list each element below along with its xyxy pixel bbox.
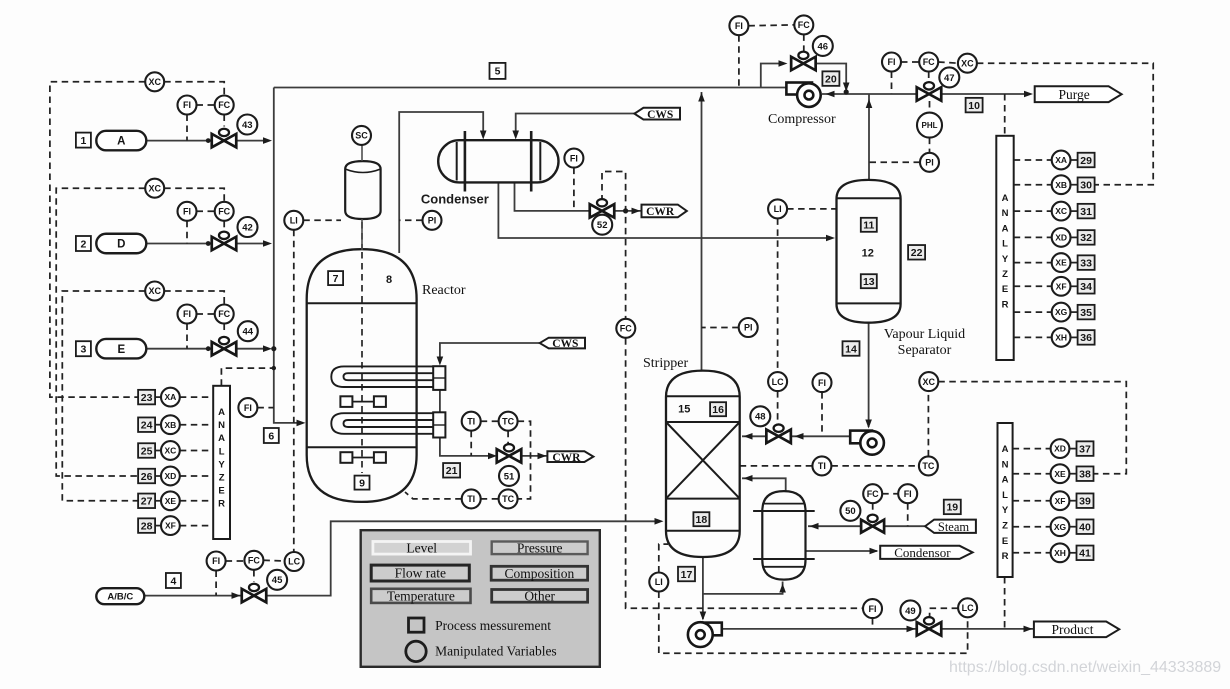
- svg-text:FC: FC: [248, 556, 260, 566]
- wire feed A/B/C line to stripper: [144, 521, 660, 595]
- instrument FC steam: [863, 484, 882, 503]
- node square 36: [1078, 330, 1095, 345]
- svg-text:FI: FI: [869, 604, 877, 614]
- node square 30: [1078, 177, 1095, 192]
- node legend box: [361, 530, 600, 667]
- svg-text:31: 31: [1080, 206, 1092, 218]
- svg-text:18: 18: [696, 514, 708, 526]
- svg-text:FI: FI: [183, 207, 191, 217]
- wire reactor CWR to valve 51: [440, 438, 492, 456]
- svg-text:FC: FC: [218, 207, 230, 217]
- instrument loop number 51: [499, 466, 519, 486]
- svg-text:24: 24: [141, 419, 153, 431]
- instrument PI separator overhead: [920, 153, 939, 172]
- node feed pill D: [96, 234, 146, 254]
- node square 40: [1077, 519, 1094, 534]
- wire dashed FI1 to feed A line: [186, 115, 188, 141]
- wire dashed FC to valve 47: [928, 72, 930, 81]
- node feed pill E: [96, 339, 146, 359]
- svg-text:XD: XD: [1055, 232, 1067, 242]
- node square 23: [138, 390, 155, 405]
- wire CWR line after valve 51: [521, 455, 547, 457]
- svg-text:PI: PI: [428, 216, 437, 226]
- instrument XE analyzer1: [1052, 253, 1071, 272]
- svg-text:LI: LI: [774, 204, 782, 214]
- svg-text:Flow rate: Flow rate: [395, 566, 446, 581]
- svg-text:49: 49: [905, 606, 916, 617]
- instrument XG analyzer2: [1051, 517, 1070, 536]
- wire separator pump discharge to valve 48: [791, 435, 851, 437]
- instrument XC analyzer1: [1052, 202, 1071, 221]
- arrow before CWR flag: [538, 453, 547, 460]
- svg-text:Pressure: Pressure: [517, 541, 563, 556]
- instrument PI reactor: [423, 211, 442, 230]
- wire dashed FI compressor to recycle line: [738, 35, 740, 87]
- arrow separator bottoms into pump: [865, 420, 872, 429]
- instrument TI reactor lower: [462, 489, 481, 508]
- wire dashed analyzer row 28: [155, 525, 161, 527]
- wire dashed FC1 to valve 43: [223, 115, 225, 127]
- svg-text:48: 48: [755, 412, 766, 423]
- instrument loop number 46: [813, 36, 833, 56]
- wire motor shaft to reactor: [361, 219, 363, 250]
- wire dashed analyzer1 row 29: [1014, 159, 1052, 161]
- node square 35: [1078, 305, 1095, 320]
- instrument TC reactor lower: [499, 489, 518, 508]
- node square 28: [138, 518, 155, 533]
- svg-text:N: N: [1002, 208, 1009, 219]
- condenser tube sheet lines: [457, 142, 541, 181]
- valve 49 product: [917, 617, 942, 636]
- wire condenser process outlet to separator: [498, 182, 831, 238]
- instrument FC purge: [919, 53, 938, 72]
- reactor agitator motor cylinder: [345, 161, 380, 219]
- svg-text:LC: LC: [962, 603, 974, 613]
- instrument FC feed 4: [244, 551, 263, 570]
- wire dashed analyzer2 row 38: [1013, 473, 1051, 475]
- analyzer left box: [213, 386, 230, 539]
- instrument loop number 49: [900, 600, 920, 620]
- instrument FI compressor: [729, 16, 748, 35]
- svg-text:R: R: [1002, 551, 1009, 562]
- node square 27: [138, 494, 155, 509]
- svg-text:LC: LC: [772, 377, 784, 387]
- node legend Level: [373, 542, 471, 555]
- wire compressor bypass loop: [761, 64, 783, 88]
- svg-text:A: A: [1002, 475, 1009, 486]
- svg-text:L: L: [219, 446, 225, 457]
- svg-text:A: A: [117, 136, 125, 148]
- instrument LC separator: [768, 372, 787, 391]
- svg-text:SC: SC: [355, 131, 368, 141]
- node square 21: [443, 463, 460, 478]
- arrow into separator: [826, 235, 835, 242]
- svg-text:47: 47: [944, 73, 955, 84]
- svg-text:22: 22: [911, 247, 923, 259]
- arrow A/B/C into stripper: [655, 518, 664, 525]
- svg-text:FC: FC: [218, 309, 230, 319]
- wire CWR line after valve 52: [614, 210, 642, 212]
- wire dashed TI-TC upper cooling loop: [481, 420, 499, 422]
- wire dashed XC3 to FC3: [164, 291, 224, 305]
- svg-text:42: 42: [242, 222, 253, 233]
- svg-text:34: 34: [1080, 281, 1092, 293]
- svg-text:30: 30: [1080, 179, 1092, 191]
- node square 32: [1078, 230, 1095, 245]
- svg-text:33: 33: [1080, 257, 1092, 269]
- svg-text:TC: TC: [502, 494, 514, 504]
- arrow into reboiler bottom: [779, 584, 786, 593]
- svg-text:XD: XD: [164, 471, 176, 481]
- wire dashed analyzer2 row 41: [1013, 552, 1051, 554]
- node square 14: [843, 341, 860, 356]
- arrow stripper bottoms into product pump: [700, 612, 707, 621]
- instrument XC feed E: [145, 282, 164, 301]
- svg-text:N: N: [218, 420, 225, 431]
- wire dashed XC purge to analyzer row 30: [977, 63, 1153, 185]
- wire dashed TI upper to CWR line: [470, 431, 472, 456]
- svg-text:21: 21: [446, 465, 458, 477]
- arrow reboiler return into stripper: [744, 475, 753, 482]
- analyzer right top box: [996, 136, 1013, 360]
- svg-text:E: E: [117, 344, 125, 356]
- wire reboiler vapour return to stripper: [742, 478, 786, 492]
- reactor baffle pair upper: [340, 396, 352, 407]
- wire dashed PHL to PI: [929, 138, 931, 153]
- svg-text:A: A: [218, 433, 225, 444]
- instrument FC feed A: [215, 96, 234, 115]
- node feed pill A: [96, 131, 146, 151]
- wire dashed XC feed-D loop to analyzer row 26: [56, 188, 145, 476]
- wire dashed valve 47 to PHL: [929, 101, 931, 113]
- arrow into compressor suction: [826, 91, 835, 98]
- wire dashed FI2 to feed D line: [186, 221, 188, 244]
- wire dashed LC to valve 49: [930, 608, 959, 619]
- valve 48 separator to stripper: [766, 424, 791, 443]
- svg-text:46: 46: [818, 41, 829, 52]
- svg-text:1: 1: [80, 135, 86, 147]
- instrument TC reactor upper: [499, 412, 518, 431]
- wire dashed XC feed-E loop to analyzer row 27: [62, 291, 145, 501]
- node square 16: [710, 402, 726, 416]
- svg-text:LI: LI: [655, 577, 663, 587]
- arrow before valve 51: [488, 453, 497, 460]
- instrument XA left analyzer: [161, 388, 180, 407]
- svg-text:12: 12: [862, 248, 874, 260]
- svg-text:Manipulated Variables: Manipulated Variables: [435, 644, 557, 659]
- node square 41: [1077, 546, 1094, 561]
- node square 11: [861, 218, 877, 232]
- wire feed A line: [146, 140, 268, 142]
- node bypass return junction: [844, 89, 849, 94]
- stripper packing X section: [666, 422, 740, 499]
- arrow before CWR top flag: [632, 208, 641, 215]
- svg-text:FI: FI: [212, 556, 220, 566]
- instrument FC feed D: [215, 202, 234, 221]
- wire dashed FC to valve 50: [872, 503, 874, 512]
- wire dashed analyzer1 row 35: [1014, 311, 1052, 313]
- instrument SC agitator: [352, 126, 371, 145]
- node legend Other: [492, 590, 588, 603]
- svg-text:19: 19: [946, 502, 958, 514]
- instrument XB analyzer1: [1052, 175, 1071, 194]
- svg-text:37: 37: [1079, 443, 1091, 455]
- svg-text:A/B/C: A/B/C: [107, 592, 133, 603]
- svg-text:XC: XC: [923, 377, 936, 387]
- wire separator overhead riser: [868, 94, 870, 181]
- wire dashed LI reactor to vessel: [303, 219, 341, 221]
- svg-text:A: A: [218, 407, 225, 418]
- wire purge line after valve 47: [941, 93, 1030, 95]
- svg-text:38: 38: [1079, 468, 1091, 480]
- arrow before valve 49: [907, 626, 916, 633]
- valve 47 purge: [917, 82, 942, 101]
- node legend circle symbol: [406, 641, 426, 661]
- svg-text:Product: Product: [1052, 622, 1094, 637]
- svg-text:27: 27: [141, 496, 153, 508]
- wire dashed analyzer1 row 31: [1014, 210, 1052, 212]
- instrument TI reactor upper: [462, 412, 481, 431]
- node square 22: [908, 245, 925, 259]
- instrument FI feed E: [178, 305, 197, 324]
- svg-text:FC: FC: [923, 57, 935, 67]
- svg-text:Purge: Purge: [1059, 87, 1090, 102]
- instrument XC purge: [958, 54, 977, 73]
- svg-text:Reactor: Reactor: [422, 283, 466, 298]
- node square 2: [76, 236, 91, 251]
- svg-text:2: 2: [80, 238, 86, 250]
- svg-text:Vapour Liquid: Vapour Liquid: [884, 327, 965, 342]
- svg-text:39: 39: [1079, 495, 1091, 507]
- svg-text:FI: FI: [244, 403, 252, 413]
- node junction feed E: [271, 346, 276, 351]
- svg-text:L: L: [1002, 490, 1008, 501]
- svg-text:XB: XB: [1055, 180, 1067, 190]
- valve 51 reactor CWR: [497, 444, 522, 463]
- svg-text:Y: Y: [218, 459, 225, 470]
- instrument XD left analyzer: [161, 467, 180, 486]
- instrument loop number 44: [238, 321, 258, 341]
- instrument FI feed A: [178, 96, 197, 115]
- instrument XE left analyzer: [161, 491, 180, 510]
- wire dashed analyzer row 24: [155, 424, 161, 426]
- wire dashed LC to valve 48: [777, 391, 779, 424]
- svg-text:FI: FI: [888, 57, 896, 67]
- svg-text:20: 20: [825, 73, 837, 85]
- valve 45 feed A/B/C: [242, 584, 267, 603]
- instrument XD analyzer1: [1052, 228, 1071, 247]
- svg-text:FI: FI: [735, 21, 743, 31]
- reactor cooling coil upper: [331, 366, 433, 387]
- instrument LI separator: [768, 199, 787, 218]
- svg-text:13: 13: [863, 276, 875, 288]
- svg-text:XC: XC: [148, 183, 161, 193]
- arrow before purge flag: [1024, 91, 1033, 98]
- instrument TI stripper: [812, 456, 831, 475]
- wire between reactor coil nozzles: [439, 390, 441, 412]
- svg-text:A: A: [1002, 223, 1009, 234]
- svg-text:FC: FC: [218, 100, 230, 110]
- svg-text:16: 16: [712, 404, 724, 416]
- svg-text:XC: XC: [1055, 206, 1067, 216]
- instrument loop number 45: [267, 570, 287, 590]
- svg-text:Y: Y: [1002, 505, 1009, 516]
- reactor vessel: [307, 249, 417, 502]
- svg-text:XG: XG: [1055, 307, 1068, 317]
- svg-text:A: A: [1002, 444, 1009, 455]
- wire dashed FI-FC compressor: [748, 24, 794, 27]
- node legend square symbol: [409, 618, 425, 632]
- wire dashed FI reactor-feed to header: [257, 407, 273, 409]
- svg-text:https://blog.csdn.net/weixin_4: https://blog.csdn.net/weixin_44333889: [949, 659, 1221, 676]
- svg-text:50: 50: [845, 506, 856, 517]
- svg-text:A: A: [1002, 193, 1009, 204]
- svg-text:45: 45: [272, 575, 283, 586]
- arrow into reactor: [297, 420, 306, 427]
- reboiler tube sheets: [753, 510, 815, 512]
- svg-text:Steam: Steam: [938, 520, 970, 534]
- node square 3: [76, 341, 91, 356]
- svg-text:XB: XB: [164, 420, 176, 430]
- svg-text:Level: Level: [406, 541, 437, 556]
- svg-text:Process messurement: Process messurement: [435, 618, 551, 633]
- instrument loop number 42: [238, 217, 258, 237]
- instrument XF analyzer1: [1052, 277, 1071, 296]
- instrument FI feed D: [178, 202, 197, 221]
- wire condenser CWR outlet line: [515, 182, 591, 211]
- svg-text:PI: PI: [925, 158, 934, 168]
- svg-text:XC: XC: [961, 58, 974, 68]
- svg-text:7: 7: [333, 273, 339, 285]
- svg-text:3: 3: [80, 343, 86, 355]
- node Steam flag: [925, 520, 976, 533]
- svg-text:15: 15: [678, 404, 690, 416]
- svg-text:PI: PI: [744, 323, 753, 333]
- node legend Flow rate: [371, 565, 469, 581]
- wire reactor CWS supply line: [440, 343, 540, 361]
- node square 34: [1078, 279, 1095, 294]
- wire dashed LI reactor to LC feed4: [293, 230, 295, 552]
- svg-text:XA: XA: [1055, 155, 1067, 165]
- instrument XC stripper composition: [919, 372, 938, 391]
- instrument LI reactor: [284, 211, 303, 230]
- reactor coil nozzle box lower: [433, 412, 445, 437]
- svg-text:E: E: [1002, 284, 1008, 295]
- arrow into valve 48: [795, 433, 804, 440]
- instrument FC stripper line: [616, 319, 635, 338]
- svg-text:11: 11: [863, 220, 874, 232]
- wire dashed FI2-FC2: [197, 210, 215, 212]
- node square 10: [966, 98, 983, 113]
- svg-text:FI: FI: [183, 100, 191, 110]
- svg-text:XE: XE: [1055, 258, 1067, 268]
- wire dashed purge line to analyzer 1: [1004, 94, 1006, 136]
- arrow CWS into condenser: [512, 131, 519, 140]
- wire dashed FI product stub to product line: [872, 618, 874, 629]
- svg-text:Separator: Separator: [898, 343, 952, 358]
- node Product flag: [1034, 622, 1119, 638]
- node junction dot before valve 44: [206, 346, 211, 351]
- wire dashed PI stripper overhead: [702, 327, 739, 329]
- svg-text:Y: Y: [1002, 254, 1009, 265]
- instrument loop number 43: [237, 115, 257, 135]
- arrow feed A into header: [263, 137, 272, 144]
- wire stripper bottoms branch to reboiler: [703, 582, 783, 594]
- separator bottoms pump: [850, 431, 872, 444]
- instrument XG analyzer1: [1052, 303, 1071, 322]
- wire valve 48 to stripper inlet: [742, 435, 767, 437]
- wire dashed FI4-FC4-LC chain: [226, 560, 245, 562]
- node square 26: [138, 469, 155, 484]
- instrument FI purge: [882, 53, 901, 72]
- wire dashed TI2 to reactor bottom: [405, 492, 462, 499]
- node square 17: [678, 567, 695, 582]
- valve 44 feed E: [212, 337, 237, 356]
- instrument XH analyzer1: [1052, 328, 1071, 347]
- instrument FI reactor feed: [238, 398, 257, 417]
- wire dashed TC to valve 51: [507, 431, 509, 444]
- arrow before valve 45: [232, 592, 241, 599]
- arrow into condensor flag: [870, 548, 879, 555]
- instrument FI separator bottoms: [813, 373, 832, 392]
- svg-text:XF: XF: [165, 521, 176, 531]
- wire dashed analyzer1 row 33: [1014, 262, 1052, 264]
- wire bypass after valve 46 returning to suction: [816, 64, 847, 92]
- node feed pill A/B/C: [96, 588, 144, 604]
- wire dashed TC loop rectangle right side: [518, 421, 531, 499]
- svg-text:51: 51: [504, 471, 515, 482]
- svg-text:FC: FC: [867, 489, 879, 499]
- wire dashed FC4 to valve 45: [253, 570, 255, 582]
- svg-text:Other: Other: [524, 589, 555, 604]
- compressor U1: [786, 83, 812, 95]
- svg-text:PHL: PHL: [922, 121, 938, 130]
- wire dashed FI3 to feed E line: [186, 324, 188, 349]
- wire separator bottoms downcomer to pump: [868, 323, 870, 427]
- wire dashed analyzer1 row 30: [1014, 184, 1052, 186]
- svg-text:D: D: [117, 239, 125, 251]
- svg-text:E: E: [218, 486, 224, 497]
- svg-text:XH: XH: [1054, 548, 1066, 558]
- reactor coil nozzle box upper: [433, 366, 445, 390]
- node junction on CWR line: [623, 208, 628, 213]
- svg-text:10: 10: [968, 100, 980, 112]
- svg-text:Composition: Composition: [505, 566, 575, 581]
- wire dashed analyzer row 23: [155, 396, 161, 398]
- instrument TC stripper: [919, 456, 938, 475]
- vapour liquid separator vessel: [837, 180, 901, 323]
- arrow feed sample junction: [272, 366, 276, 370]
- instrument XC feed A: [145, 72, 164, 91]
- svg-text:17: 17: [681, 569, 693, 581]
- wire dashed FC-XC purge: [938, 62, 958, 63]
- svg-text:N: N: [1002, 459, 1009, 470]
- wire dashed XC2 to FC2: [164, 188, 224, 202]
- svg-text:E: E: [1002, 536, 1008, 547]
- svg-text:CWS: CWS: [552, 338, 578, 350]
- reactor agitator shaft dashed inside: [361, 252, 363, 473]
- svg-text:TC: TC: [502, 416, 514, 426]
- arrow into stripper from valve 48: [744, 433, 753, 440]
- instrument FI feed 4: [207, 552, 226, 571]
- wire reboiler outlet to condensor flag: [806, 550, 878, 552]
- wire dashed valve 52 controller loop from FC: [602, 172, 626, 319]
- node square 37: [1077, 441, 1094, 456]
- svg-text:XD: XD: [1054, 444, 1066, 454]
- wire dashed PI to separator riser: [869, 161, 920, 163]
- wire stripper overhead riser: [701, 92, 703, 370]
- node square 4: [166, 573, 181, 588]
